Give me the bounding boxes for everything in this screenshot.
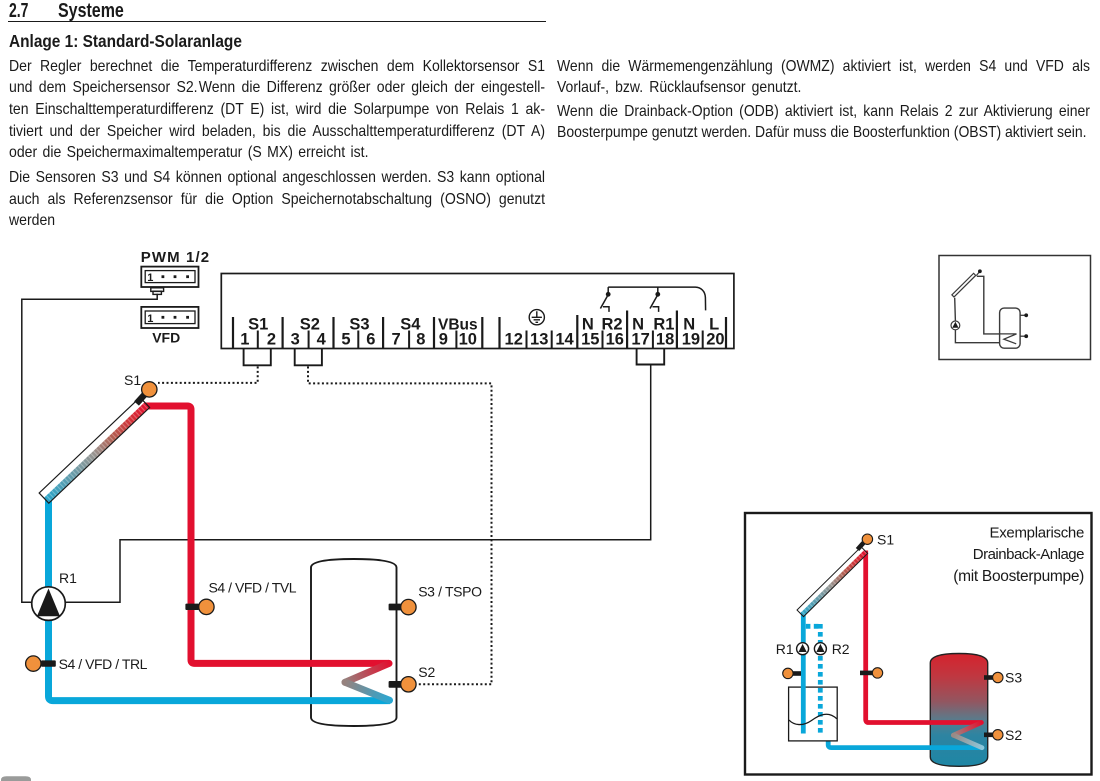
solar collector — [39, 397, 149, 503]
svg-text:Drainback-Anlage: Drainback-Anlage — [973, 546, 1084, 563]
red flow pipe (hot) — [143, 406, 389, 663]
svg-text:N: N — [582, 315, 594, 333]
drainback red flow pipe — [866, 551, 982, 723]
drainback return sensor mount — [792, 671, 802, 676]
left text column paragraph 1 — [9, 56, 545, 164]
svg-text:PWM 1/2: PWM 1/2 — [141, 249, 210, 266]
svg-text:R2: R2 — [832, 641, 850, 657]
heat exchanger coil segment hot — [345, 663, 389, 682]
section heading 2.7 Systeme — [9, 1, 28, 21]
drainback coil segment cold — [953, 735, 982, 748]
sensor S1 bulb — [142, 382, 157, 397]
svg-text:R1: R1 — [776, 641, 794, 657]
terminal bridge staple 17-18 — [637, 348, 665, 364]
drainback sensor S3 mount — [984, 675, 994, 680]
drainback pump R1 — [797, 643, 809, 655]
mini collector — [952, 273, 976, 297]
terminal numbers 1-10 — [240, 331, 477, 349]
svg-text:14: 14 — [555, 331, 574, 349]
sensor S4/VFD/TVL mount — [185, 604, 199, 610]
terminal bridge staple 3-4 — [295, 348, 322, 365]
drainback collector — [797, 547, 868, 617]
relay contact R1 — [650, 287, 660, 312]
svg-text:3: 3 — [291, 331, 300, 349]
drainback storage tank — [930, 654, 987, 767]
storage tank — [311, 559, 397, 726]
sensor S2 bulb — [401, 677, 416, 692]
page footer tab — [1, 776, 31, 781]
heat exchanger coil segment cold — [345, 682, 390, 700]
svg-text:S4: S4 — [400, 315, 421, 333]
svg-text:12: 12 — [505, 331, 523, 349]
drainback sensor S2 bulb — [993, 730, 1003, 740]
drainback coil segment hot — [953, 723, 981, 736]
svg-text:S4 / VFD / TRL: S4 / VFD / TRL — [59, 656, 148, 672]
svg-text:(mit Boosterpumpe): (mit Boosterpumpe) — [953, 568, 1084, 585]
drainback flow sensor mount — [860, 671, 873, 676]
drainback water level wave — [789, 714, 837, 724]
VFD connector pin 1 and contacts — [147, 313, 189, 325]
left text column paragraph 2 — [9, 167, 545, 232]
svg-text:R1: R1 — [653, 315, 674, 333]
svg-text:R2: R2 — [601, 315, 622, 333]
sensor S4/VFD/TRL bulb — [26, 656, 41, 671]
drainback pump R2 — [814, 643, 826, 655]
terminal numbers 12-20 — [505, 331, 725, 349]
terminal labels N R2 N R1 N L — [582, 315, 719, 333]
mini pump — [951, 321, 960, 330]
mini flow pipe — [977, 276, 1000, 334]
mini sensor dot on collector — [976, 269, 981, 275]
svg-text:S3 / TSPO: S3 / TSPO — [418, 584, 482, 600]
svg-text:S1: S1 — [124, 372, 141, 388]
sensor S2 mount — [389, 681, 403, 688]
drainback return sensor bulb — [783, 668, 793, 678]
drainback example box — [745, 513, 1092, 775]
terminal bridge staple 1-2 — [244, 348, 271, 365]
svg-text:S4 / VFD / TVL: S4 / VFD / TVL — [209, 580, 297, 596]
svg-text:1: 1 — [147, 272, 153, 284]
svg-text:13: 13 — [530, 331, 548, 349]
heading rule — [8, 21, 546, 22]
drainback vessel — [789, 687, 838, 741]
svg-text:S1: S1 — [877, 532, 894, 548]
sensor S3/TSPO bulb — [401, 599, 416, 614]
svg-text:VFD: VFD — [152, 329, 180, 345]
mini tank — [1000, 308, 1021, 348]
svg-text:L: L — [709, 315, 719, 333]
drainback blue return pipe — [828, 726, 982, 748]
right text column paragraph 1 — [557, 56, 1090, 99]
drainback sensor S3 bulb — [993, 672, 1003, 682]
svg-text:S2: S2 — [418, 664, 435, 680]
svg-text:R1: R1 — [59, 570, 77, 586]
svg-text:N: N — [632, 315, 644, 333]
mini system overview box — [939, 256, 1091, 360]
mini tank ports — [1020, 313, 1028, 338]
relay contact R2 — [600, 287, 610, 312]
svg-text:S1: S1 — [248, 315, 268, 333]
terminal group separator ticks (tall) — [233, 311, 726, 349]
drainback sensor S1 mount — [858, 543, 864, 550]
controller terminal box — [221, 274, 734, 349]
drainback sensor S1 bulb — [862, 534, 872, 544]
relay common rail from L — [608, 287, 705, 310]
sensor S4/VFD/TVL bulb — [199, 599, 214, 614]
pump R1 — [32, 587, 66, 621]
terminal labels S1 S2 S3 S4 VBus — [248, 315, 478, 333]
svg-text:1: 1 — [147, 313, 153, 325]
sensor S4/VFD/TRL mount — [41, 660, 56, 666]
dotted sensor lead S1 to terminals 1-2 — [158, 367, 258, 383]
PWM connector block — [141, 267, 198, 295]
VFD connector block — [141, 307, 198, 328]
wire relay R1 output to pump — [65, 365, 651, 603]
drainback dashed booster pipe — [806, 624, 821, 734]
mini return pipe with pump — [955, 298, 1000, 343]
terminal pair ticks (short) — [258, 331, 703, 349]
mini tank coil — [1000, 334, 1017, 344]
drainback sensor S2 mount — [984, 733, 994, 738]
svg-text:S3: S3 — [1005, 670, 1022, 686]
drainback solid blue pipe from collector — [801, 612, 806, 734]
blue return pipe (cold) — [49, 494, 391, 701]
svg-text:VBus: VBus — [438, 316, 478, 333]
svg-text:Exemplarische: Exemplarische — [990, 524, 1084, 541]
svg-text:S2: S2 — [1005, 727, 1022, 743]
PWM connector pin 1 and contacts — [147, 272, 189, 284]
subheading Anlage 1 — [9, 33, 242, 50]
sensor S1 mount — [137, 393, 147, 404]
svg-text:S3: S3 — [349, 315, 369, 333]
earth ground symbol above terminal 13 — [529, 310, 544, 325]
sensor S3/TSPO mount — [389, 604, 403, 611]
drainback flow sensor bulb — [872, 668, 882, 678]
right text column paragraph 2 — [557, 101, 1090, 144]
wire PWM cable to pump R1 — [22, 294, 157, 603]
svg-text:S2: S2 — [300, 315, 320, 333]
dotted sensor lead S2 to terminals 3-4 — [308, 367, 492, 685]
svg-text:N: N — [683, 315, 695, 333]
